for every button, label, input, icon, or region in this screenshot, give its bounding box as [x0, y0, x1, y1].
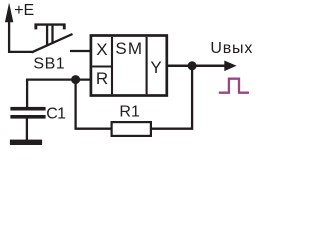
svg-text:SB1: SB1 [33, 55, 65, 72]
svg-text:SM: SM [115, 39, 143, 58]
svg-text:C1: C1 [46, 105, 66, 122]
svg-text:Y: Y [150, 58, 161, 77]
svg-text:X: X [96, 40, 107, 59]
svg-text:Uвых: Uвых [210, 40, 253, 57]
svg-text:+E: +E [14, 2, 34, 19]
svg-text:R: R [96, 69, 108, 88]
svg-text:R1: R1 [119, 103, 140, 120]
